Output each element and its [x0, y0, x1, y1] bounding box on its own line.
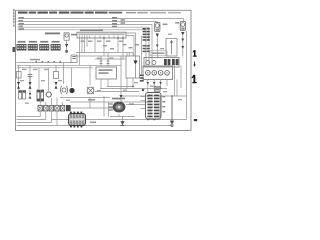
igniter label	[112, 98, 125, 100]
ECU pin labels	[81, 41, 124, 42]
label COWL SIDE	[45, 33, 60, 35]
igniter G1 dark oval	[104, 96, 125, 117]
left margin vertical text	[13, 9, 15, 27]
junction block J1	[17, 44, 27, 51]
switch box SW1	[166, 39, 177, 57]
junction dot D	[160, 88, 162, 90]
inline connector T5	[119, 95, 122, 98]
margin dash bottom	[194, 119, 197, 121]
wire bus line 2	[18, 21, 158, 24]
lamp L2	[175, 22, 185, 57]
inline connector T1	[17, 82, 20, 89]
mini connector K	[155, 86, 160, 91]
ECU connector CN2 striped	[146, 93, 162, 120]
junction block J3	[39, 44, 49, 51]
fuse row label box	[150, 51, 167, 56]
mid horizontal wires	[76, 53, 133, 60]
lamp L1	[155, 23, 168, 58]
inline connector T6	[147, 82, 150, 85]
wire bus line 4	[18, 27, 150, 58]
wire bus line 3	[18, 25, 153, 58]
pin dots on ECU bottom	[103, 37, 105, 39]
stack marks right of D1	[140, 75, 144, 82]
wire bus line 1	[18, 19, 184, 21]
resistor R1	[17, 72, 22, 79]
margin numeral 1b	[192, 75, 197, 83]
relay socket wires	[148, 66, 181, 97]
inline connector T4	[29, 93, 32, 99]
relay box RB1	[96, 53, 117, 89]
junction stack JB1	[143, 28, 150, 41]
title bar	[18, 12, 181, 14]
wire label B	[129, 103, 134, 105]
inline connector T3	[55, 82, 58, 89]
margin mark	[193, 62, 196, 68]
wires under CN2	[110, 80, 177, 122]
component S1 check connector	[64, 33, 77, 53]
wire bundle verticals top right	[121, 33, 152, 102]
long horizontals mid-left	[17, 65, 122, 68]
wire T5 to igniter	[120, 98, 122, 102]
junction dot C	[147, 95, 149, 97]
connector group label 1	[18, 41, 26, 43]
sensor SN1	[19, 91, 26, 100]
junction block J2	[28, 44, 38, 51]
margin numeral 1a	[193, 50, 197, 57]
resistor R2	[54, 72, 59, 79]
junction block J4	[51, 44, 61, 51]
inline connector T7	[153, 82, 156, 85]
diode box D1	[126, 53, 140, 79]
connector row CR1	[38, 98, 71, 112]
junction dot G	[153, 119, 155, 121]
junction blob H	[142, 89, 145, 92]
CN2 left stubs	[141, 97, 146, 109]
connector group label 3	[40, 41, 48, 43]
wires bottom left nested	[17, 98, 187, 126]
wire label bottom	[90, 122, 96, 124]
sensor SN2	[37, 90, 44, 101]
ECU pin wires	[80, 38, 124, 65]
wire bus line 5	[18, 30, 147, 56]
knock sensor SN5	[69, 88, 74, 93]
connector CN2 labels	[162, 96, 165, 112]
capacitor C2	[28, 75, 33, 83]
bus line labels mid	[112, 17, 125, 27]
inline connector T8	[159, 82, 162, 85]
junction dot B	[132, 86, 134, 88]
sensor SN4	[61, 86, 68, 94]
ground G3	[170, 96, 174, 127]
nested wires mid right	[95, 31, 187, 120]
border frame	[16, 10, 192, 130]
left margin tab B	[13, 47, 16, 52]
noise filter rail	[17, 59, 73, 63]
fuse row FB1	[144, 58, 179, 68]
scattered wire labels	[20, 34, 182, 104]
wire igniter to CN2	[126, 104, 141, 106]
sensor SN3 ring	[46, 92, 51, 97]
relay sockets RS1	[143, 66, 173, 80]
left sensor wires	[19, 63, 91, 109]
junction stack JB2	[143, 45, 150, 52]
wire label W-B	[88, 99, 95, 101]
check connector CN1	[69, 112, 86, 128]
sensor SN6	[87, 87, 94, 94]
junction dot F	[147, 119, 149, 121]
bus line labels left	[19, 17, 25, 30]
page background	[0, 0, 200, 142]
inline connector T2	[29, 82, 32, 89]
connector group label 2	[29, 41, 37, 43]
junction dot E	[171, 95, 173, 97]
ECU box U1	[77, 29, 126, 38]
connector group label 4	[52, 41, 60, 43]
ground G2	[121, 122, 125, 126]
wire labels mid column	[103, 44, 139, 49]
junction dot A	[120, 95, 122, 97]
capacitor C1	[71, 55, 77, 63]
